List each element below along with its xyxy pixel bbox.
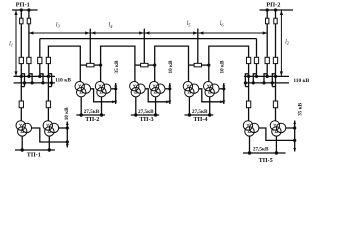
wire ТП-4 left 27.5 output	[188, 97, 190, 115]
busbar connection right 4	[272, 74, 275, 83]
wire ТП-1 right drop	[47, 93, 49, 101]
wire ТП-3 right 27.5 output	[155, 97, 157, 115]
fuse F2	[87, 63, 94, 67]
transformer T2 (ТП-1 right)	[43, 121, 59, 136]
svg-text:l2: l2	[285, 40, 290, 46]
transformer ТП-2 left	[75, 82, 91, 97]
svg-text:110 кВ: 110 кВ	[55, 78, 71, 84]
svg-text:10 кВ: 10 кВ	[168, 60, 174, 73]
wire B: tie left section to ТП-2	[48, 46, 80, 81]
busbar 110 kV left upper	[14, 75, 56, 77]
disconnector QS right 4	[273, 57, 277, 63]
disconnector QS left 1	[19, 57, 23, 63]
wire ТП-1 left drop	[20, 93, 22, 101]
breaker Q3 (РП-2 feeder 1)	[266, 18, 269, 24]
transformer ТП-3 left	[130, 82, 146, 97]
transformer ТП-3 right	[149, 82, 165, 97]
fuse drop wire ТП-3	[143, 29, 145, 64]
wire ТП-2 left 35kV output	[91, 89, 116, 102]
tie wire with fuse ТП-3	[135, 64, 141, 66]
busbar 110 kV right lower	[244, 82, 289, 84]
transformer T1 (ТП-1 left)	[16, 121, 32, 136]
busbar connection left 1	[21, 74, 24, 83]
breaker ТП-1 left	[19, 101, 23, 108]
svg-text:10 кВ: 10 кВ	[64, 107, 70, 120]
dimension line l2 (РП-2 to 110 kV bus)	[280, 10, 282, 76]
disconnector QS right 2	[254, 57, 258, 63]
dimension chain line l3-l6	[29, 32, 267, 34]
svg-text:10 кВ: 10 кВ	[219, 60, 225, 73]
feeder line 10 кВ ТП-3	[169, 83, 171, 104]
wire РП-2 feeder 1	[266, 10, 268, 57]
transformer T9 (ТП-5 left)	[243, 121, 259, 136]
wire ТП-4 right 27.5 output	[209, 97, 211, 115]
svg-text:ТП-2: ТП-2	[85, 116, 99, 123]
junction ТП-5 bus right	[275, 151, 278, 154]
busbar connection right 1	[245, 74, 248, 83]
wire ТП-4 right 35kV output	[219, 88, 224, 90]
svg-text:ТП-5: ТП-5	[259, 157, 273, 164]
disconnector QS right 3	[265, 57, 269, 63]
wire T1 27.5kV output	[21, 136, 23, 150]
transformer ТП-4 left	[183, 82, 199, 97]
breaker Q1 (РП-1 feeder 1)	[20, 18, 23, 24]
wire T2 27.5kV output	[48, 136, 50, 150]
svg-text:l4: l4	[109, 23, 114, 29]
wire C1: tie ТП-2 to ТП-3	[101, 46, 135, 81]
busbar 27.5 kV ТП-5	[243, 152, 286, 154]
svg-text:35 кВ: 35 кВ	[297, 102, 303, 115]
junction ТП-1 bus right	[48, 148, 51, 151]
svg-text:ТП-3: ТП-3	[140, 116, 154, 123]
wire ТП-2 right 27.5 output	[101, 97, 103, 115]
busbar connection left 3	[40, 74, 43, 83]
busbar 110 kV right upper	[244, 75, 289, 77]
breaker ТП-5 right	[273, 101, 277, 108]
junction on РП-1 bus (feeder 1)	[20, 8, 23, 11]
wire ТП-5 left drop	[248, 93, 250, 101]
dimension arrows	[29, 31, 34, 34]
junction ТП-1 bus left	[21, 148, 24, 151]
wire РП-2 feeder 2	[275, 10, 277, 57]
dimension line l1 (РП-1 to 110 kV bus)	[15, 10, 17, 76]
fuse F4	[194, 63, 201, 67]
wire T10 27.5kV output	[275, 136, 277, 153]
svg-text:l5: l5	[187, 21, 192, 27]
disconnector QS left 4	[46, 57, 50, 63]
svg-text:ТП-4: ТП-4	[193, 116, 207, 123]
svg-text:35 кВ: 35 кВ	[114, 60, 120, 73]
junction on РП-1 bus (feeder 2)	[27, 8, 30, 11]
wire A: upper 110 kV tie line across scheme	[40, 38, 257, 40]
busbar 27.5 kV ТП-1	[15, 149, 55, 151]
fuse drop wire ТП-2	[89, 29, 91, 64]
busbar РП-1	[12, 9, 38, 11]
wire РП-1 feeder 2	[28, 10, 30, 57]
busbar РП-2	[260, 9, 294, 11]
busbar connection right 2	[253, 74, 256, 83]
wire T10 35kV output	[286, 127, 295, 129]
svg-text:110 кВ: 110 кВ	[293, 78, 309, 84]
breaker Q2 (РП-1 feeder 2)	[27, 18, 30, 24]
junction T9 to 35kV line	[293, 139, 296, 142]
junction on РП-2 bus (feeder 1)	[266, 8, 269, 11]
wire ТП-3 left 27.5 output	[135, 97, 137, 115]
busbar 27.5 kV ТП-2	[76, 114, 105, 116]
junction on РП-2 bus (feeder 2)	[274, 8, 277, 11]
wire ТП-3 left 35kV output	[145, 89, 169, 102]
junction tie-right ТП-2	[99, 64, 102, 67]
disconnector QS left 2	[27, 57, 31, 63]
svg-text:РП-1: РП-1	[16, 1, 30, 8]
fuse drop wire ТП-4	[197, 29, 199, 64]
fuse F3	[141, 63, 148, 67]
disconnector QS left 3	[38, 57, 42, 63]
busbar connection right 3	[264, 74, 267, 83]
junction tie-right ТП-4	[207, 64, 210, 67]
wire ТП-5 right drop	[275, 93, 277, 101]
junction T10 to 35kV line	[293, 126, 296, 129]
wire A left drop to left 110 kV bus	[39, 39, 41, 58]
svg-text:l6: l6	[220, 21, 225, 27]
svg-text:ТП-1: ТП-1	[27, 152, 41, 159]
junction ТП-5 bus left	[248, 151, 251, 154]
feeder line 35 kV ТП-5	[294, 121, 296, 152]
tie wire with fuse ТП-2	[80, 64, 86, 66]
tie wire with fuse ТП-4	[189, 64, 195, 66]
svg-text:l3: l3	[56, 22, 61, 28]
wire ТП-2 right 35kV output	[111, 88, 116, 90]
busbar 27.5 kV ТП-3	[131, 114, 159, 116]
wire T1 10kV output	[32, 128, 68, 142]
transformer ТП-2 right	[95, 82, 111, 97]
transformer T10 (ТП-5 right)	[270, 121, 286, 136]
breaker ТП-1 right	[46, 101, 50, 108]
wire D: tie ТП-4 to right section	[209, 46, 249, 81]
svg-text:l1: l1	[9, 41, 13, 47]
wire T9 35kV output	[259, 128, 295, 140]
wire ТП-2 left 27.5 output	[80, 97, 82, 115]
wire РП-1 feeder 1	[20, 10, 22, 57]
feeder line 10 кВ ТП-4	[223, 83, 225, 104]
feeder line 10 kV ТП-1	[66, 122, 68, 148]
wire C2: tie ТП-3 to ТП-4	[155, 46, 189, 81]
svg-text:РП-2: РП-2	[266, 1, 280, 8]
svg-text:27,5кВ: 27,5кВ	[192, 109, 208, 115]
svg-text:27,5кВ: 27,5кВ	[84, 109, 100, 115]
junction T2 to 10kV line	[66, 126, 69, 129]
breaker ТП-5 left	[246, 101, 250, 108]
svg-text:27,5кВ: 27,5кВ	[138, 109, 154, 115]
wire ТП-3 right 35kV output	[165, 88, 170, 90]
wire ТП-4 left 35kV output	[199, 89, 224, 102]
wire T9 27.5kV output	[249, 136, 251, 153]
disconnector QS right 1	[246, 57, 250, 63]
breaker Q4 (РП-2 feeder 2)	[274, 18, 277, 24]
busbar connection left 4	[48, 74, 51, 83]
busbar 27.5 kV ТП-4	[185, 114, 214, 116]
wire A right drop to right 110 kV bus	[256, 39, 258, 58]
svg-text:27,5кВ: 27,5кВ	[253, 147, 269, 153]
wire T2 10kV output	[59, 127, 68, 129]
junction tie-right ТП-3	[153, 64, 156, 67]
busbar connection left 2	[29, 74, 32, 83]
junction T1 to 10kV line	[66, 140, 69, 143]
busbar 110 kV left lower	[14, 82, 56, 84]
transformer ТП-4 right	[204, 82, 220, 97]
feeder line 35 кВ ТП-2	[115, 83, 117, 104]
